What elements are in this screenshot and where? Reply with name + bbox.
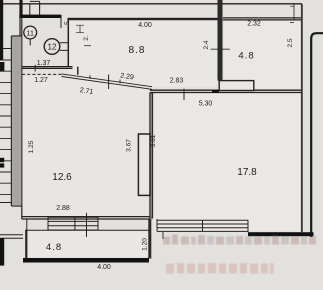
- svg-text:1.37: 1.37: [37, 60, 51, 67]
- svg-text:2.4: 2.4: [203, 40, 210, 49]
- svg-text:5.30: 5.30: [199, 101, 213, 108]
- svg-text:11: 11: [26, 28, 34, 37]
- svg-text:2.5: 2.5: [287, 38, 294, 47]
- svg-text:1.25: 1.25: [28, 140, 35, 153]
- svg-text:5: 5: [64, 21, 71, 25]
- svg-text:2.32: 2.32: [247, 21, 261, 28]
- svg-text:4.8: 4.8: [46, 242, 62, 253]
- svg-text:12.6: 12.6: [52, 172, 72, 183]
- svg-text:2.88: 2.88: [56, 205, 70, 212]
- svg-text:4.00: 4.00: [138, 22, 152, 29]
- svg-text:1.20: 1.20: [142, 238, 149, 251]
- svg-text:4.00: 4.00: [97, 264, 111, 271]
- svg-text:12: 12: [48, 43, 57, 52]
- svg-text:17.8: 17.8: [237, 167, 257, 178]
- svg-text:3.61: 3.61: [150, 134, 157, 147]
- svg-text:3.67: 3.67: [126, 139, 133, 152]
- svg-text:4.8: 4.8: [238, 51, 254, 62]
- svg-text:2.83: 2.83: [170, 78, 184, 85]
- svg-text:8.8: 8.8: [129, 45, 146, 56]
- svg-text:1.27: 1.27: [34, 77, 48, 84]
- svg-text:2.: 2.: [83, 35, 90, 41]
